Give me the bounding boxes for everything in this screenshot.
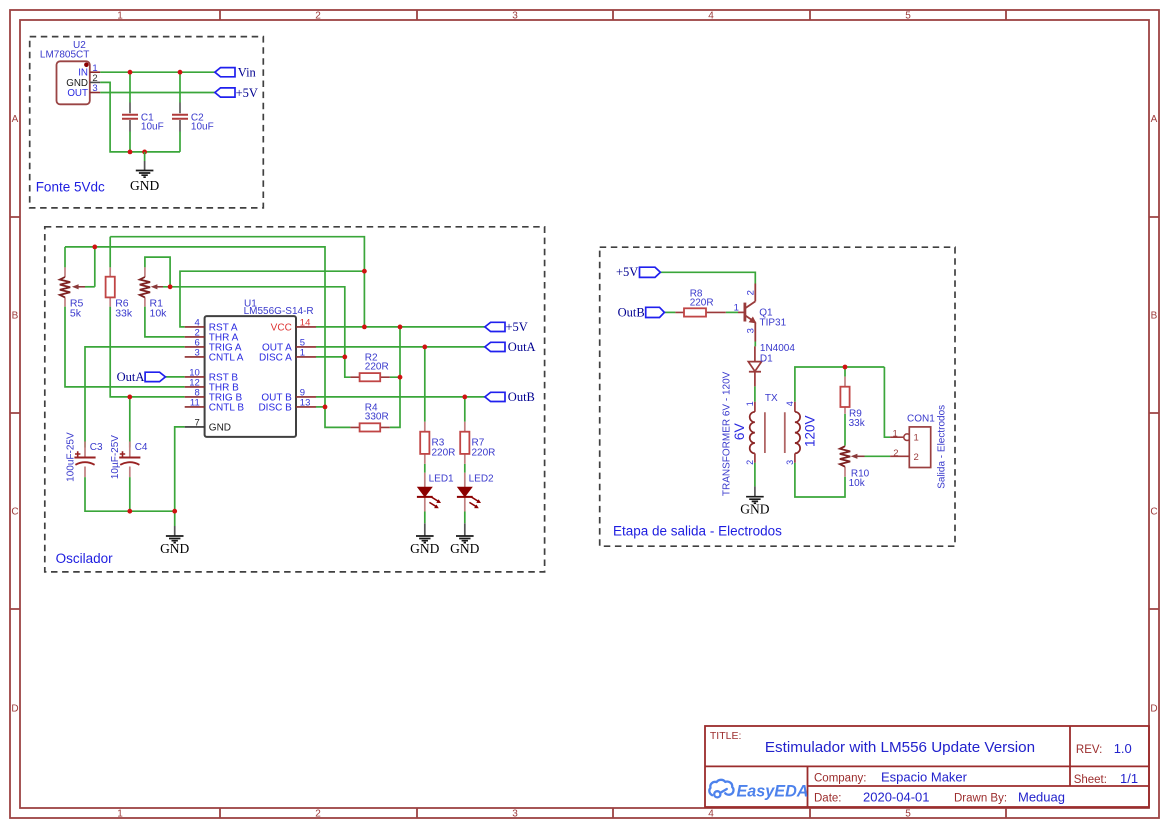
U1 right pin numbers [300, 318, 311, 409]
svg-text:5: 5 [905, 809, 911, 820]
junction dot R9 top [843, 365, 848, 370]
svg-text:1: 1 [117, 809, 123, 820]
svg-text:GND: GND [450, 541, 479, 556]
svg-text:D1: D1 [760, 354, 773, 365]
svg-text:10uF: 10uF [141, 122, 164, 133]
svg-text:A: A [1151, 114, 1158, 125]
svg-text:6V: 6V [731, 422, 747, 440]
svg-text:11: 11 [190, 398, 200, 409]
svg-text:2: 2 [315, 809, 321, 820]
EasyEDA logo cloud [709, 780, 733, 798]
svg-text:OUT: OUT [67, 88, 88, 99]
wire TX coil2 bottom rail [795, 463, 845, 497]
svg-text:Company:: Company: [814, 773, 866, 785]
svg-text:10µF-25V: 10µF-25V [110, 435, 121, 479]
svg-text:220R: 220R [365, 362, 389, 373]
OSC [45, 227, 545, 572]
transformer TX [721, 371, 817, 496]
svg-text:13: 13 [300, 398, 311, 409]
svg-text:A: A [12, 114, 19, 125]
svg-text:+5V: +5V [616, 265, 638, 279]
wire R2 right riser [390, 327, 400, 428]
title row divider [705, 765, 1149, 767]
ground symbol TX [746, 486, 764, 503]
title block outline [705, 726, 1149, 807]
svg-text:CNTL B: CNTL B [209, 403, 245, 414]
ground symbol LED2 [456, 523, 474, 542]
svg-text:LM556G-S14-R: LM556G-S14-R [244, 306, 314, 317]
svg-text:TX: TX [765, 393, 778, 404]
LED2 [457, 473, 494, 512]
wire GND pin2 to bottom rail [100, 82, 180, 151]
svg-text:C3: C3 [90, 442, 103, 453]
Oscilador block dashed border [45, 227, 545, 572]
svg-text:10k: 10k [849, 478, 866, 489]
capacitor C3 [65, 432, 103, 482]
svg-text:Fonte 5Vdc: Fonte 5Vdc [36, 180, 105, 195]
resistor R6 [106, 267, 133, 319]
svg-text:C: C [1150, 507, 1157, 518]
potentiometer R1 [140, 267, 167, 319]
wire OutA port to RST B [165, 376, 184, 378]
svg-text:Date:: Date: [814, 793, 842, 805]
svg-text:CNTL A: CNTL A [209, 353, 244, 364]
svg-text:10uF: 10uF [191, 122, 214, 133]
junction dot rail/C1 [128, 150, 133, 155]
svg-text:TRANSFORMER 6V - 120V: TRANSFORMER 6V - 120V [721, 371, 732, 496]
svg-text:1.0: 1.0 [1114, 741, 1132, 756]
svg-text:14: 14 [300, 318, 311, 329]
wire C1 branch [129, 72, 131, 152]
wire C4 bottom [129, 477, 131, 511]
row tick marks right [1149, 217, 1159, 609]
wire GND pin7 [175, 427, 185, 511]
resistor R9 [840, 377, 865, 429]
wire emitter gap [754, 342, 756, 347]
resistor R8 [675, 288, 725, 316]
wire TRIG A to C3 [85, 347, 185, 448]
rev/sheet column divider [1069, 726, 1071, 786]
junction dot rail/GND [142, 150, 147, 155]
port Vin [215, 68, 235, 77]
connector CON1 [890, 405, 947, 489]
U1 left pin stubs [185, 327, 205, 407]
svg-text:220R: 220R [690, 298, 714, 309]
svg-text:OutA: OutA [508, 340, 536, 354]
column tick marks top [220, 10, 1006, 20]
wire IN net (Vin) [100, 71, 215, 73]
wire C4 branch [129, 397, 131, 448]
wire R5 bottom to THR B [65, 307, 185, 387]
svg-text:TIP31: TIP31 [760, 317, 787, 328]
potentiometer R10 [840, 446, 870, 489]
U1 left pin numbers [189, 318, 200, 429]
svg-text:3: 3 [745, 328, 756, 333]
LED1 [417, 473, 454, 512]
resistor R7 [460, 422, 495, 464]
svg-text:GND: GND [209, 423, 231, 434]
svg-text:1: 1 [300, 348, 305, 359]
wire OUT A to OutA port [316, 346, 485, 348]
svg-text:220R: 220R [472, 448, 496, 459]
svg-text:2: 2 [914, 452, 919, 463]
svg-text:+5V: +5V [236, 86, 258, 100]
potentiometer R5 [60, 267, 95, 319]
wire OUT net (+5V) [100, 92, 215, 94]
svg-text:GND: GND [740, 502, 769, 517]
port +5V fonte [215, 88, 235, 97]
svg-text:OutB: OutB [618, 305, 645, 319]
svg-text:3: 3 [92, 83, 97, 94]
svg-text:4: 4 [708, 11, 714, 22]
wire C2 branch [179, 72, 181, 152]
svg-text:C: C [11, 507, 18, 518]
svg-text:Etapa de salida - Electrodos: Etapa de salida - Electrodos [613, 523, 782, 538]
svg-text:5: 5 [905, 11, 911, 22]
svg-text:Vin: Vin [238, 66, 257, 80]
svg-text:1: 1 [745, 401, 755, 406]
svg-text:OutA: OutA [117, 370, 145, 384]
wire R8 to base [726, 311, 738, 313]
ETAPA [600, 247, 955, 546]
capacitor C2 leads [179, 103, 181, 132]
svg-text:+5V: +5V [506, 320, 528, 334]
capacitor C4 [110, 435, 148, 479]
wire TX coil1 bottom to gnd [754, 463, 756, 487]
svg-text:1: 1 [117, 11, 123, 22]
svg-text:Drawn By:: Drawn By: [954, 793, 1007, 805]
ground symbol fonte [136, 152, 154, 177]
resistor R2 [350, 352, 389, 381]
svg-text:2: 2 [315, 11, 321, 22]
svg-text:B: B [12, 311, 19, 322]
svg-text:120V: 120V [803, 415, 818, 447]
wire DISC A to R2 [316, 357, 350, 377]
svg-text:33k: 33k [849, 418, 866, 429]
svg-text:100uF-25V: 100uF-25V [65, 432, 76, 482]
svg-text:GND: GND [130, 178, 159, 193]
U1 right pin names [258, 323, 292, 414]
svg-text:1N4004: 1N4004 [760, 343, 795, 354]
Etapa block dashed border [600, 247, 955, 546]
svg-text:4: 4 [785, 401, 795, 406]
FONTE [30, 37, 264, 208]
svg-text:5k: 5k [70, 307, 82, 319]
svg-text:D: D [11, 704, 18, 715]
wire R6 top lead [109, 237, 111, 268]
svg-text:GND: GND [160, 541, 189, 556]
port OutB etapa input [646, 307, 665, 317]
svg-text:10k: 10k [150, 307, 168, 319]
wire R6 bottom to TRIG B [110, 307, 185, 397]
wire OUT B to OutB port [316, 396, 485, 398]
TITLEBLOCK [705, 726, 1149, 807]
wire DISC B stub [316, 406, 325, 408]
svg-text:1/1: 1/1 [1120, 771, 1138, 786]
capacitor C1 plates [122, 115, 138, 119]
logo cell divider [807, 766, 809, 807]
IC U1 LM556 body [205, 316, 296, 437]
wire R5 top lead [64, 247, 66, 268]
wire R9 top [844, 367, 846, 377]
regulator U2 body [57, 61, 90, 104]
diode D1 1N4004 [748, 343, 795, 386]
svg-text:1: 1 [893, 428, 898, 439]
wire R7 branch [464, 397, 466, 523]
U1 pin7 stub [185, 426, 205, 428]
wire R3 branch [424, 347, 426, 523]
svg-text:2: 2 [745, 290, 756, 295]
U1 right pin stubs [296, 327, 316, 407]
wire C3 bottom rail [85, 477, 175, 511]
svg-text:D: D [1150, 704, 1157, 715]
U2 pin 3 stub [90, 92, 100, 94]
port OutB output [485, 392, 505, 401]
svg-text:3: 3 [512, 11, 518, 22]
U1 left pin names [209, 323, 245, 434]
wire R1 bottom to THR A [145, 307, 185, 337]
svg-text:C4: C4 [135, 442, 148, 453]
svg-text:Espacio Maker: Espacio Maker [881, 770, 968, 785]
svg-text:EasyEDA: EasyEDA [737, 783, 809, 801]
svg-text:B: B [1151, 311, 1158, 322]
svg-text:LM7805CT: LM7805CT [40, 50, 89, 61]
column tick marks bottom [220, 808, 1006, 818]
svg-text:2: 2 [893, 448, 898, 459]
svg-text:CON1: CON1 [907, 413, 935, 424]
svg-text:GND: GND [410, 541, 439, 556]
capacitor C2 plates [172, 115, 188, 119]
wire R9 to R10 [844, 414, 846, 446]
wire to CON1 pin1 [884, 367, 890, 437]
svg-text:Oscilador: Oscilador [56, 551, 114, 566]
junction dot Vin/C1 [128, 70, 133, 75]
svg-text:TITLE:: TITLE: [710, 730, 742, 742]
port +5V osc [485, 322, 505, 331]
wire +5V to collector [660, 272, 755, 283]
wire VCC to +5V port [316, 326, 485, 328]
wire R1 top loop [145, 257, 170, 287]
svg-text:330R: 330R [365, 412, 389, 423]
svg-text:DISC B: DISC B [258, 403, 292, 414]
wire RST A to VCC rail [180, 271, 364, 327]
wire OutB to R8 [664, 311, 675, 313]
svg-text:3: 3 [785, 460, 795, 465]
svg-text:DISC A: DISC A [259, 353, 292, 364]
wire R5 top to R4 left [65, 247, 350, 428]
svg-text:3: 3 [195, 348, 200, 359]
port +5V etapa input [640, 267, 661, 277]
svg-text:7: 7 [195, 418, 200, 429]
wire R5 wiper riser [94, 247, 96, 287]
wire D1 to TX coil1 [754, 386, 756, 401]
resistor R3 [420, 422, 455, 464]
ground symbol osc [166, 511, 184, 542]
resistor R4 [350, 403, 389, 432]
junction dots oscillator [92, 245, 467, 514]
svg-text:OutB: OutB [508, 390, 535, 404]
wire R10 wiper to CON1 pin2 [865, 455, 891, 457]
svg-text:1: 1 [734, 303, 739, 314]
port OutA output [485, 342, 505, 351]
svg-text:2020-04-01: 2020-04-01 [863, 790, 930, 805]
svg-text:Sheet:: Sheet: [1074, 774, 1107, 786]
svg-text:Estimulador with LM556 Update: Estimulador with LM556 Update Version [765, 739, 1035, 756]
svg-text:Meduag: Meduag [1018, 790, 1065, 805]
svg-text:Salida - Electrodos: Salida - Electrodos [937, 405, 948, 489]
svg-text:REV:: REV: [1076, 744, 1102, 756]
svg-text:1: 1 [914, 432, 919, 443]
svg-text:VCC: VCC [271, 323, 292, 334]
U2 pin 1 stub [90, 71, 100, 73]
ground symbol LED1 [416, 523, 434, 542]
transistor Q1 TIP31 [734, 284, 787, 342]
wire R6 top to VCC (net +5V) [110, 237, 364, 327]
svg-text:4: 4 [708, 809, 714, 820]
svg-text:2: 2 [745, 460, 755, 465]
port OutA input [145, 372, 165, 381]
wire TX coil2 top riser [795, 367, 885, 402]
svg-text:3: 3 [512, 809, 518, 820]
svg-text:220R: 220R [432, 448, 456, 459]
wire R1 wiper to DISC A [163, 287, 345, 357]
U2 pin1 marker dot [84, 63, 89, 68]
U2 pin 2 stub [90, 81, 100, 83]
capacitor C1 leads [129, 103, 131, 132]
company/date divider [808, 785, 1150, 787]
svg-text:33k: 33k [115, 307, 133, 319]
svg-text:LED1: LED1 [429, 473, 454, 484]
row tick marks left [10, 217, 20, 609]
svg-text:LED2: LED2 [469, 473, 494, 484]
junction dot Vin/C2 [178, 70, 183, 75]
Fonte 5Vdc block dashed border [30, 37, 264, 208]
